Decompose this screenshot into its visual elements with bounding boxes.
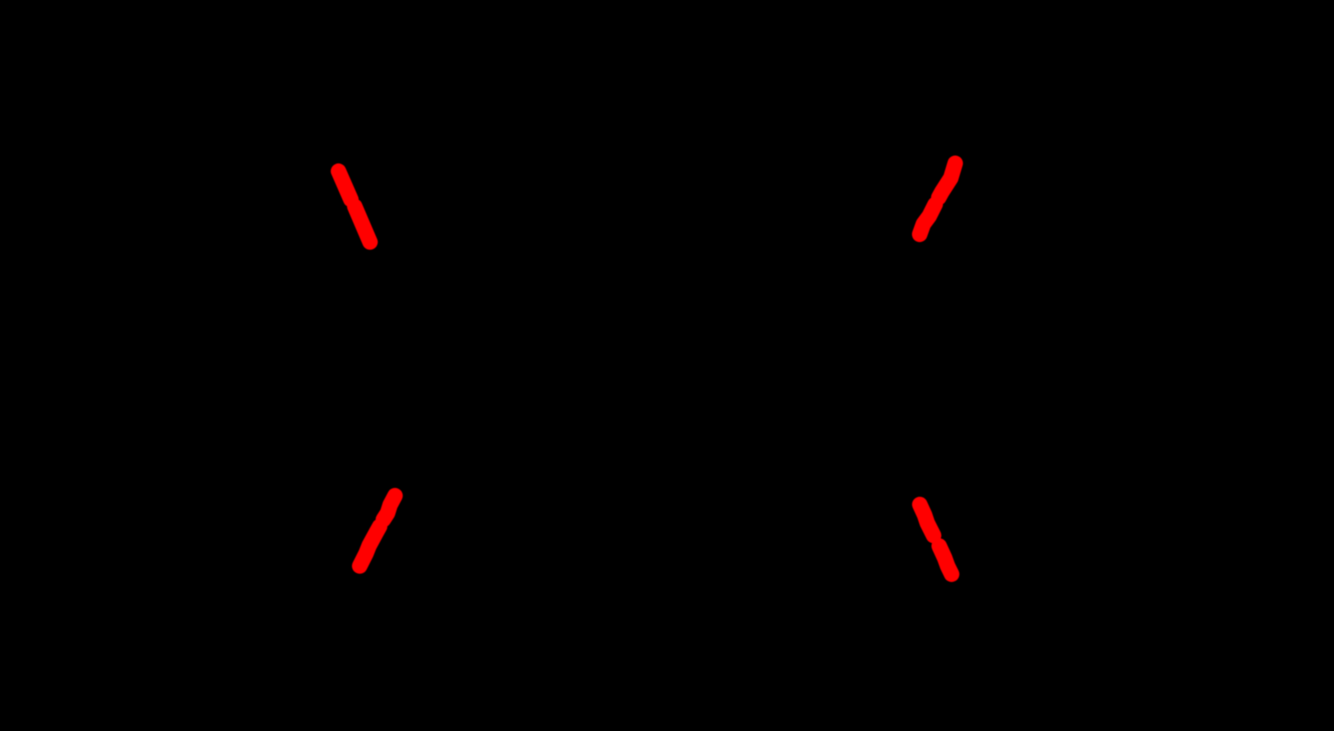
red marker stroke 2 (top-right, upper segment) <box>939 163 955 197</box>
red marker stroke 3 (bottom-left, upper segment) <box>383 496 395 520</box>
red marker stroke 1 (top-left, lower segment) <box>355 207 370 243</box>
red marker stroke 1 (top-left, upper segment) <box>339 171 351 199</box>
red marker stroke 4 (bottom-right, upper segment) <box>920 505 934 536</box>
red marker stroke 2 (top-right, lower segment) <box>920 204 936 234</box>
red marker stroke 4 (bottom-right, lower segment) <box>939 546 951 574</box>
red marker stroke 3 (bottom-left, lower segment) <box>360 527 380 567</box>
